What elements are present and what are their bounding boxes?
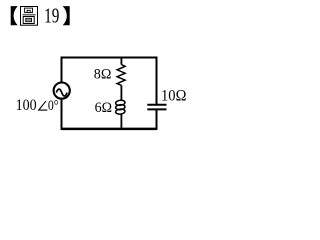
svg-text:0°: 0°: [48, 98, 59, 114]
svg-text:19: 19: [44, 4, 59, 28]
svg-text:10Ω: 10Ω: [161, 87, 186, 104]
svg-text:100: 100: [16, 97, 37, 114]
svg-text:8Ω: 8Ω: [94, 67, 112, 83]
svg-text:6Ω: 6Ω: [95, 100, 112, 116]
